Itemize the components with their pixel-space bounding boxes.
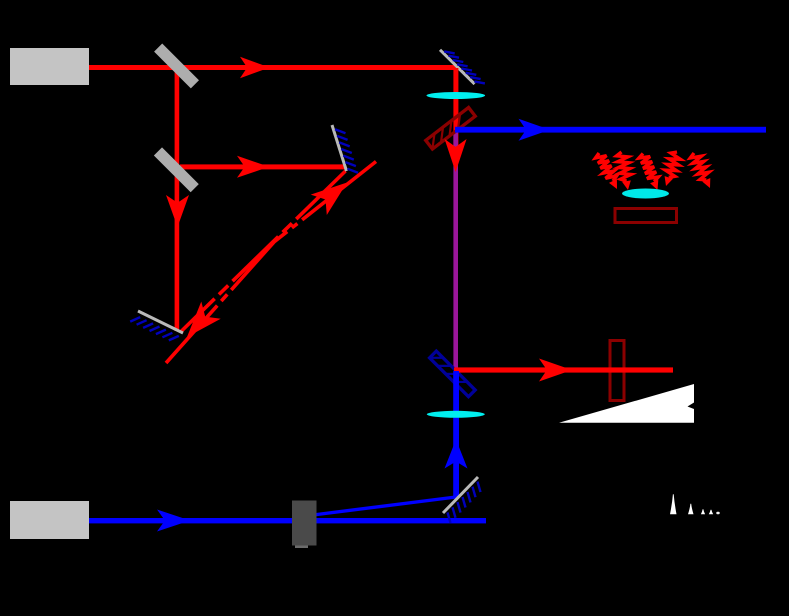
beamsplitter BS1 [154,44,199,89]
blue beam from probe laser [89,518,486,523]
blue up arrow A9 [445,440,468,469]
delay up-right arrow A4 [311,183,347,216]
red beam arrow A3 [237,156,269,178]
red probe beam to etalon [454,367,673,372]
red beam M3 down to dichroic DM1 [453,68,458,146]
dichroic mirror DM1 (dark red) [426,108,476,150]
red beam BS1 down to mirror M1 [175,68,180,331]
etalon / filter F1 [610,341,624,401]
red down arrow A6 below DM1 [445,139,467,172]
mirror M2 (delay top) [332,125,347,171]
delay beam mirror-to-mirror [181,171,346,332]
beamsplitter BS2 [154,147,199,192]
pump laser (red) box [10,48,89,85]
fluorescence squiggle arrow F4 [665,152,680,177]
blue output beam to experiment [455,127,766,133]
red beam from pump laser to mirror M3 [87,65,458,70]
red beam BS2 to mirror M2 [180,164,345,169]
fluorescence squiggle arrow F2 [617,152,631,181]
detector PMT box [615,209,677,223]
diffracted beam AOM to M4 [313,497,456,515]
delay beam return (bent, dashed) [166,162,376,364]
fluorescence squiggle arrow F5 [690,153,709,180]
mirror M4 (bottom turning) [443,477,478,513]
red beam arrow A1 [240,57,270,78]
dichroic mirror DM2 (navy) [430,351,476,397]
lens L1 [427,92,486,99]
probe laser (blue) box [10,501,89,539]
blue beam up from mirror M4 [453,371,459,497]
delay down-left arrow A5 [187,302,221,338]
fluorescence squiggle arrow F1 [595,153,616,181]
lens L2 [427,411,485,418]
acousto-optic modulator AOM [292,501,317,546]
red probe arrow A8 [539,359,572,382]
signal pulse train peaks [670,494,677,514]
white delay wedge [559,384,694,423]
AOM base [295,546,308,549]
mirror M3 (top right) [440,50,475,84]
blue output arrow A7 [519,119,551,141]
red beam down arrow A2 [166,195,189,227]
collection lens L3 [622,189,669,199]
mirror M1 (delay bottom) [138,311,183,333]
blue beam arrow A10 [157,510,190,532]
purple combined beam [453,132,458,370]
fluorescence squiggle arrow F3 [639,154,658,182]
